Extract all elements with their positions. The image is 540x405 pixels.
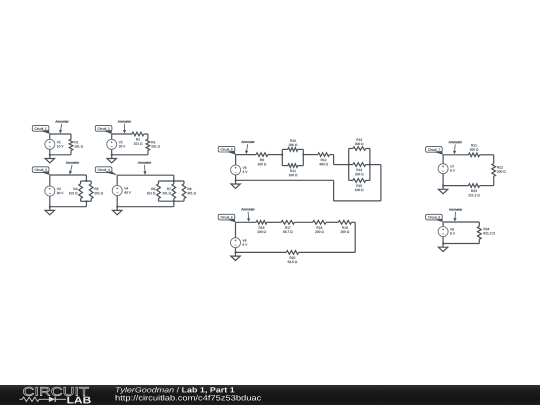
parallel block R13/R14/R15 left rail xyxy=(348,149,350,181)
wire right rail xyxy=(354,222,356,252)
wire bracket top xyxy=(81,180,92,182)
circuit name tag Circuit_3 xyxy=(32,167,49,173)
wire top 4 xyxy=(326,221,338,223)
junction xyxy=(49,154,51,156)
voltage source V6 5 V xyxy=(231,238,241,248)
resistor R19 200 ohm xyxy=(338,220,351,224)
wire top 1 xyxy=(443,154,468,156)
wire jog down xyxy=(332,155,334,165)
wire top 5 xyxy=(352,221,356,223)
wire bottom xyxy=(50,154,71,156)
wire top xyxy=(117,174,174,176)
wire bottom xyxy=(443,242,479,244)
wire top 2 xyxy=(267,221,281,223)
resistor R8 301 ohm xyxy=(183,181,185,184)
voltage source V5 5 V xyxy=(231,165,241,175)
wire left lower xyxy=(116,196,118,207)
wire left lower xyxy=(442,174,444,186)
footer bar xyxy=(0,385,540,405)
wire top 1 xyxy=(236,153,257,155)
resistor R20 54.5 ohm xyxy=(286,251,298,255)
wire bracket top xyxy=(159,180,185,182)
wire after R12 xyxy=(329,153,333,155)
CircuitLab logo wordmark CIRCUIT xyxy=(23,387,88,396)
ammeter label xyxy=(118,120,131,122)
circuit name tag Circuit_6 xyxy=(218,214,235,220)
wire right down xyxy=(380,165,382,201)
attribution line xyxy=(116,387,174,394)
parallel block R10/R11 right rail xyxy=(302,149,304,165)
resistor R12 400 ohm xyxy=(318,153,330,157)
resistor R17 66.7 ohm xyxy=(281,220,294,224)
junction xyxy=(111,154,113,156)
wire left lower xyxy=(234,248,236,253)
resistor R10 200 ohm xyxy=(282,148,288,150)
circuit name tag Circuit_4 xyxy=(95,167,112,173)
wire return bottom xyxy=(334,200,381,202)
wire top xyxy=(443,221,479,223)
wire left upper xyxy=(49,134,51,139)
resistor R21 200 ohm xyxy=(468,153,479,157)
resistor R13 300 ohm xyxy=(349,147,353,149)
ground xyxy=(49,207,51,211)
ground xyxy=(234,252,236,256)
wire bottom from V5 xyxy=(236,179,334,181)
junction dots xyxy=(86,180,88,182)
ammeter label xyxy=(66,161,79,163)
wire left upper xyxy=(116,175,118,185)
resistor R3 201 ohm xyxy=(147,134,149,139)
wire bracket bottom xyxy=(81,200,92,202)
url line xyxy=(116,395,262,402)
junction xyxy=(442,185,444,187)
resistor R14 200 ohm xyxy=(349,163,353,165)
resistor R1 101 ohm xyxy=(70,134,72,139)
wire out of block2 xyxy=(370,163,381,165)
resistor R4 101 ohm xyxy=(79,181,81,184)
wire trunk lower xyxy=(173,201,175,207)
wire top xyxy=(50,174,87,176)
ammeter label xyxy=(138,161,151,163)
circuit name tag Circuit_5 xyxy=(218,146,235,152)
resistor R22 200 ohm xyxy=(493,155,495,164)
resistor R24 621.2 ohm xyxy=(478,222,480,226)
logo resistor zigzag xyxy=(19,397,48,401)
wire top 1 xyxy=(236,221,257,223)
wire left upper xyxy=(442,222,444,227)
ammeter label xyxy=(55,120,68,122)
wire left lower xyxy=(110,149,112,155)
logo wordmark LAB xyxy=(67,397,90,404)
circuit name tag Circuit_1 xyxy=(32,126,49,132)
circuit name tag Circuit_7 xyxy=(426,147,443,153)
junction xyxy=(442,243,444,245)
resistor R16 100 ohm xyxy=(256,220,267,224)
wire top right xyxy=(144,133,148,135)
wire bracket bottom xyxy=(159,200,185,202)
wire top 3 xyxy=(295,221,313,223)
junction xyxy=(235,252,237,254)
ground xyxy=(442,244,444,248)
voltage source V4 40 V xyxy=(112,186,122,196)
wire bottom right xyxy=(480,184,494,186)
wire mid xyxy=(303,153,318,155)
wire left upper xyxy=(234,155,236,165)
wire bottom left xyxy=(443,184,468,186)
ground xyxy=(110,155,112,159)
resistor R15 100 ohm xyxy=(349,179,353,181)
circuit name tag Circuit_2 xyxy=(95,126,112,132)
wire left upper xyxy=(442,155,444,164)
wire left lower xyxy=(49,196,51,207)
ammeter label xyxy=(449,141,462,143)
voltage source V3 30 V xyxy=(45,186,55,196)
resistor R5 201 ohm xyxy=(90,181,92,184)
junction dots xyxy=(281,154,283,156)
wire bottom xyxy=(117,205,174,207)
voltage source V7 5 V xyxy=(438,164,448,174)
wire into block2 xyxy=(334,163,349,165)
resistor R7 201 ohm xyxy=(173,181,175,184)
ammeter label xyxy=(449,208,462,210)
resistor R9 100 ohm xyxy=(256,153,268,157)
voltage source V1 10 V xyxy=(45,139,55,149)
wire top left xyxy=(112,133,132,135)
voltage source V8 5 V xyxy=(438,227,448,237)
resistor R11 100 ohm xyxy=(282,164,288,166)
parallel block R10/R11 left rail xyxy=(281,149,283,165)
wire left upper xyxy=(234,222,236,237)
wire top 2 xyxy=(480,154,494,156)
wire trunk upper xyxy=(85,175,87,181)
resistor R23 221.2 ohm xyxy=(468,184,479,188)
junction dots xyxy=(173,180,175,182)
wire bottom xyxy=(112,154,148,156)
wire left upper xyxy=(49,175,51,186)
wire return up xyxy=(332,180,334,201)
wire bottom left xyxy=(236,251,287,253)
ground xyxy=(442,186,444,190)
wire top xyxy=(50,133,71,135)
wire top 2 xyxy=(268,153,283,155)
logo diode xyxy=(49,397,55,402)
wire trunk lower xyxy=(85,201,87,206)
resistor R6 101 ohm xyxy=(157,181,159,184)
circuit name tag Circuit_8 xyxy=(426,214,443,220)
parallel block R13/R14/R15 right rail xyxy=(369,149,371,181)
ground xyxy=(49,155,51,159)
ammeter label xyxy=(241,208,254,210)
ammeter label xyxy=(241,141,254,143)
resistor R2 101 ohm xyxy=(132,132,144,136)
wire left upper xyxy=(110,134,112,139)
ground xyxy=(116,207,118,211)
wire left lower xyxy=(442,237,444,244)
wire trunk upper xyxy=(173,175,175,181)
wire left lower xyxy=(49,149,51,155)
resistor R18 200 ohm xyxy=(313,220,326,224)
ground xyxy=(234,180,236,184)
wire left lower xyxy=(234,175,236,180)
voltage source V2 20 V xyxy=(107,139,117,149)
wire bottom right xyxy=(299,251,356,253)
wire bottom xyxy=(50,205,87,207)
